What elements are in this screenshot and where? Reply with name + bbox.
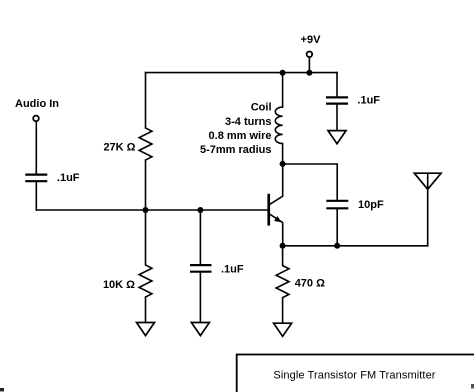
svg-text:27K Ω: 27K Ω <box>103 141 135 153</box>
ground (C4) <box>191 323 209 336</box>
svg-text:0.8 mm wire: 0.8 mm wire <box>209 130 272 142</box>
svg-text:Audio In: Audio In <box>15 98 59 110</box>
terminal Audio In <box>15 98 59 174</box>
node coil top junction <box>280 70 286 76</box>
inductor L1 coil <box>200 73 283 164</box>
node base/C4 junction <box>197 207 203 213</box>
svg-text:.1uF: .1uF <box>57 172 80 184</box>
capacitor C2 .1uF (supply bypass) <box>326 73 380 131</box>
resistor R1 27K <box>103 73 151 210</box>
node base/27K junction <box>143 207 149 213</box>
svg-text:.1uF: .1uF <box>357 95 380 107</box>
corner mark bottom-left <box>0 388 4 391</box>
capacitor C1 .1uF (audio coupling) <box>25 172 79 210</box>
svg-text:5-7mm radius: 5-7mm radius <box>200 144 272 156</box>
node emitter junction <box>280 243 286 249</box>
svg-text:Coil: Coil <box>251 102 272 114</box>
antenna <box>414 173 441 246</box>
svg-text:.1uF: .1uF <box>221 264 244 276</box>
wire top bus <box>146 72 338 74</box>
wire base bus <box>36 209 267 211</box>
capacitor C3 10pF <box>326 199 384 246</box>
svg-text:3-4 turns: 3-4 turns <box>225 116 271 128</box>
capacitor C4 .1uF (base bypass) <box>190 210 244 322</box>
svg-text:470 Ω: 470 Ω <box>295 278 325 290</box>
ground (470) <box>274 323 292 336</box>
svg-text:+9V: +9V <box>301 34 322 46</box>
ground (10K) <box>137 323 155 336</box>
node +9V junction <box>306 70 312 76</box>
title box <box>237 355 474 392</box>
wire emitter bus <box>283 245 428 247</box>
resistor R2 10K <box>103 210 152 322</box>
node coil bottom junction <box>280 161 286 167</box>
node 10pF bottom junction <box>334 243 340 249</box>
transistor Q1 <box>267 164 282 246</box>
corner mark bottom-right <box>471 384 474 389</box>
svg-text:10pF: 10pF <box>358 199 384 211</box>
wire coil to 10pF <box>283 164 338 200</box>
resistor R3 470 <box>276 246 325 323</box>
terminal +9V <box>301 34 322 73</box>
svg-text:10K Ω: 10K Ω <box>103 279 135 291</box>
svg-text:Single Transistor FM Transmitt: Single Transistor FM Transmitter <box>273 370 435 382</box>
ground (supply bypass) <box>328 131 346 144</box>
